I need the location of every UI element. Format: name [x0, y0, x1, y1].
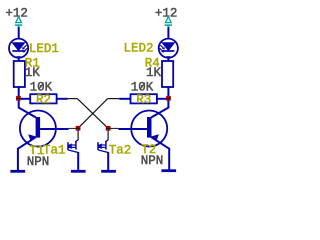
node: T1 base junction — [76, 126, 81, 131]
label LED2 — [124, 42, 154, 56]
wire: net R3 to cross diagonal — [108, 98, 120, 100]
capacitor Ta1 — [68, 140, 79, 153]
node: T2 collector junction — [166, 96, 171, 101]
label Ta1 — [43, 144, 66, 158]
svg-text:+12: +12 — [155, 7, 178, 21]
wire: T1 base pin net to junction — [69, 127, 81, 129]
wire: T1 emitter down — [17, 148, 19, 170]
supply symbol +12 left — [15, 17, 22, 28]
ground (T1 emitter) — [10, 170, 25, 173]
value 1K (R1) — [25, 66, 41, 80]
wire: cross diagonal R3 to T1 base node — [78, 99, 108, 129]
label T1 — [29, 144, 44, 158]
power label +12 (right) — [155, 7, 178, 21]
wire: R1 to collector node T1 — [18, 87, 20, 96]
wire: base node down to Ta1 — [77, 130, 79, 140]
resistor R4 — [162, 61, 173, 87]
supply symbol +12 right — [165, 17, 172, 28]
wire: junction to R2 — [21, 98, 31, 100]
ground (T2 emitter) — [161, 169, 176, 172]
svg-text:+12: +12 — [5, 6, 28, 20]
ground (Ta1) — [71, 170, 86, 173]
value 1K (R4) — [146, 66, 162, 80]
wire: R3 left pin stub — [119, 98, 130, 100]
ground (Ta2) — [101, 170, 116, 173]
svg-text:R2: R2 — [36, 93, 51, 107]
wire: left rail supply to LED1 — [18, 27, 20, 39]
LED LED2 — [159, 39, 178, 58]
wire: base node down to Ta2 — [107, 130, 109, 140]
label Ta2 — [109, 144, 132, 158]
wire: LED1 to R1 — [18, 58, 20, 62]
transistor T2 — [118, 108, 169, 149]
label T2 — [141, 143, 156, 157]
resistor R2 — [30, 94, 56, 103]
wire: junction to R3 — [157, 98, 166, 100]
wire: right rail supply to LED2 — [167, 27, 169, 39]
node: T1 collector junction — [16, 96, 21, 101]
wire: net T2 base pin to junction — [106, 127, 119, 129]
wire: R4 to collector node T2 — [167, 87, 169, 96]
label LED1 — [29, 42, 59, 56]
wire: junction down to T2 collector — [167, 100, 169, 108]
label R4 — [145, 56, 160, 70]
svg-text:1K: 1K — [146, 66, 162, 80]
label R1 — [25, 56, 40, 70]
wire: T2 emitter down — [168, 148, 170, 170]
wire: Ta1 to ground — [77, 152, 79, 170]
node: T2 base junction — [106, 126, 111, 131]
label R2 — [36, 93, 51, 107]
value 10K (R2) — [30, 80, 53, 94]
wire: net R2 to cross diagonal — [68, 98, 78, 100]
resistor R1 — [14, 61, 25, 87]
svg-text:LED2: LED2 — [124, 42, 154, 56]
svg-text:LED1: LED1 — [29, 42, 59, 56]
wire: Ta2 to ground — [107, 152, 109, 170]
svg-text:R3: R3 — [136, 93, 151, 107]
label NPN (T1) — [27, 155, 50, 169]
label NPN (T2) — [141, 154, 164, 168]
wire: R2 right pin stub — [57, 98, 68, 100]
wire: cross diagonal R2 to T2 base node — [77, 99, 108, 129]
wire: junction down to T1 collector — [18, 100, 20, 108]
transistor T1 — [18, 108, 69, 149]
resistor R3 — [131, 94, 157, 103]
svg-text:NPN: NPN — [141, 154, 164, 168]
svg-text:1K: 1K — [25, 66, 41, 80]
label R3 — [136, 93, 151, 107]
svg-text:Ta1: Ta1 — [43, 144, 66, 158]
svg-text:Ta2: Ta2 — [109, 144, 132, 158]
value 10K (R3) — [131, 80, 154, 94]
power label +12 (left) — [5, 6, 28, 20]
wire: LED2 to R4 — [167, 58, 169, 62]
LED LED1 — [9, 39, 28, 58]
capacitor Ta2 — [98, 140, 109, 153]
